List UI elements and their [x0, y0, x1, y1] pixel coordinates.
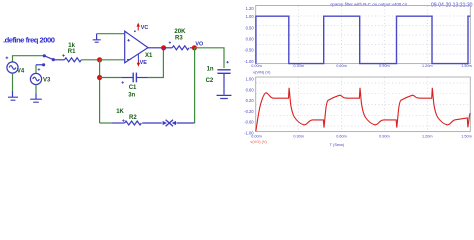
wire C1 left [100, 77, 122, 79]
node VO junction dot [192, 45, 197, 50]
resistor R3 [164, 46, 193, 50]
svg-text:VO: VO [195, 41, 203, 47]
bottom plot horizontal gridlines [256, 83, 470, 126]
svg-text:V4: V4 [17, 69, 25, 75]
svg-text:-0.50: -0.50 [244, 48, 254, 53]
switch S1 pivot dot [43, 54, 46, 57]
svg-text:0.30m: 0.30m [293, 135, 304, 139]
plus mark R3 pin [169, 41, 171, 43]
svg-text:R1: R1 [68, 49, 76, 55]
ground under C2 [217, 95, 232, 98]
square wave trace v(VIN) [256, 16, 470, 63]
svg-text:.define freq 2000: .define freq 2000 [3, 36, 55, 45]
open contact dot of switch (V3 throw) [42, 63, 45, 66]
wire V4 top to switch pivot [13, 56, 44, 62]
wire bottom rail left [100, 122, 112, 124]
svg-text:-0.20: -0.20 [244, 109, 254, 114]
top plot frame [256, 6, 471, 64]
top plot vertical gridlines [299, 6, 428, 63]
plus mark R2 pin [122, 119, 124, 121]
VE power arrow [137, 61, 140, 67]
node junction dot A (inverting input node) [97, 57, 102, 62]
svg-text:3n: 3n [128, 92, 135, 98]
voltage source V4 [7, 62, 18, 73]
plus mark V4 [6, 57, 9, 60]
filtered output trace v(VO) [256, 88, 470, 132]
svg-text:0.20: 0.20 [246, 98, 255, 103]
plus mark C1 pin [122, 81, 124, 83]
svg-text:0.00m: 0.00m [251, 64, 262, 68]
svg-text:0.60m: 0.60m [336, 64, 347, 68]
svg-text:VE: VE [140, 60, 148, 66]
resistor R1 [53, 58, 97, 62]
capacitor C2 [217, 70, 230, 95]
svg-text:C2: C2 [206, 78, 214, 84]
svg-text:R3: R3 [175, 36, 183, 42]
switch S1 closed contact dot [52, 58, 55, 61]
svg-text:v(VO) (V): v(VO) (V) [250, 139, 267, 144]
bottom plot vertical gridlines [299, 78, 428, 132]
op-amp X1 triangle [125, 31, 148, 63]
svg-text:20K: 20K [174, 29, 186, 35]
plus mark V3 [38, 68, 41, 71]
wire V3 top L-shape [35, 65, 37, 74]
svg-text:R2: R2 [129, 115, 137, 121]
wire V3 bottom to ground [35, 85, 37, 94]
ground under V3 [30, 94, 42, 103]
svg-text:1.00: 1.00 [246, 77, 255, 82]
VE pin stub [137, 54, 139, 62]
svg-text:1.20: 1.20 [246, 6, 255, 11]
bottom plot frame [256, 77, 471, 132]
svg-text:0.90m: 0.90m [379, 64, 390, 68]
wire VO node down right side [194, 48, 196, 123]
noninverting plus marker [127, 39, 130, 42]
tie symbol (bowtie with cross) [163, 120, 176, 127]
top plot y axis labels [244, 6, 254, 64]
wire node A to op-amp inverting input [100, 59, 125, 61]
bottom plot y axis labels [244, 77, 254, 136]
svg-text:1.00: 1.00 [246, 14, 255, 19]
svg-text:X1: X1 [145, 53, 153, 59]
svg-text:-1.00: -1.00 [244, 59, 254, 64]
plus mark R1 pin [62, 54, 65, 57]
svg-text:0.30m: 0.30m [293, 64, 304, 68]
svg-text:1.50m: 1.50m [461, 135, 472, 139]
svg-text:1.50m: 1.50m [461, 64, 472, 68]
output node junction dot [161, 45, 166, 50]
voltage source V3 [30, 73, 41, 84]
svg-text:0.00: 0.00 [246, 37, 255, 42]
wire V4 bottom to ground [12, 73, 14, 91]
wire C1 right up to output node [148, 48, 164, 78]
wire bowtie to right rail [176, 122, 194, 124]
svg-text:1K: 1K [116, 109, 124, 115]
wire ground to op-amp noninverting input [97, 33, 125, 35]
bottom plot x axis labels [251, 135, 472, 139]
svg-text:C1: C1 [129, 85, 137, 91]
svg-text:VC: VC [141, 25, 149, 31]
top plot horizontal gridlines [256, 16, 470, 54]
svg-text:T (Secs): T (Secs) [330, 142, 345, 147]
plus mark C2 pin [226, 61, 228, 63]
svg-text:v(VIN) (V): v(VIN) (V) [253, 69, 271, 74]
wire op-amp output [148, 47, 162, 49]
svg-text:1n: 1n [207, 67, 214, 73]
capacitor C1 [122, 73, 148, 83]
node junction dot at C1 tap [97, 75, 102, 80]
svg-text:0.60m: 0.60m [336, 135, 347, 139]
top plot x axis labels [251, 64, 472, 68]
inverting minus marker [127, 59, 131, 61]
svg-text:0.60: 0.60 [246, 87, 255, 92]
svg-text:0.90m: 0.90m [379, 135, 390, 139]
svg-text:1.20m: 1.20m [422, 135, 433, 139]
svg-text:-0.60: -0.60 [244, 120, 254, 125]
wire VO to C2 [194, 48, 224, 68]
svg-text:V3: V3 [43, 77, 51, 83]
svg-text:1.20m: 1.20m [422, 64, 433, 68]
wire node A down to bottom rail [99, 60, 101, 123]
svg-text:0.50: 0.50 [246, 26, 255, 31]
resistor R2 [112, 121, 162, 125]
ground at noninverting input [93, 34, 101, 43]
switch S1 blade [44, 56, 53, 60]
ground under V4 [8, 91, 18, 100]
VC power arrow [137, 23, 140, 31]
power pin dot [134, 30, 136, 32]
